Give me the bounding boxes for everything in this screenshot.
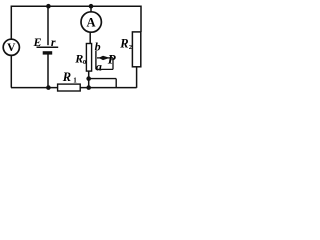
wire ammeter branch upper — [90, 6, 92, 13]
svg-text:a: a — [96, 60, 102, 74]
svg-text:R: R — [74, 52, 83, 66]
svg-text:R: R — [119, 37, 128, 51]
battery cell short thick plate — [43, 51, 53, 54]
wire slider lead down — [112, 58, 114, 70]
svg-text:2: 2 — [129, 44, 132, 51]
wire bottom horizontal left of R1 — [11, 87, 58, 89]
svg-text:R: R — [62, 70, 71, 84]
voltmeter V — [3, 39, 19, 55]
slider arrow P pointing left at element — [97, 56, 113, 60]
ammeter A — [81, 12, 101, 32]
resistor R1 body box — [58, 84, 81, 91]
wire link down to bottom wire — [115, 79, 117, 88]
rheostat R0 body box — [86, 44, 91, 72]
battery cell long plate — [37, 46, 59, 48]
wire left vertical lower (voltmeter to bottom wire) — [10, 55, 12, 87]
node junction dot on rheostat lead — [86, 76, 91, 81]
wire ammeter to rheostat box — [89, 32, 91, 44]
wire right vertical (top wire to R2) — [140, 6, 142, 32]
wire slider lead to terminal a — [96, 68, 113, 70]
wire battery branch upper — [47, 6, 49, 45]
svg-text:0: 0 — [83, 59, 86, 66]
wire left vertical upper (top wire to voltmeter) — [10, 6, 12, 40]
svg-text:V: V — [7, 42, 16, 54]
node junction dot on top wire at ammeter branch — [89, 4, 94, 9]
svg-text:A: A — [86, 16, 95, 30]
wire link from rheostat lead junction to right — [89, 78, 117, 80]
wire bottom horizontal right of R1 — [80, 87, 136, 89]
slide element wire a-b — [95, 51, 97, 70]
resistor R2 body box — [132, 32, 140, 67]
wire R2 lower lead to bottom wire — [136, 67, 138, 88]
wire rheostat box lower lead — [88, 71, 90, 88]
node junction dot on bottom wire at battery branch — [46, 85, 51, 90]
wire battery branch lower — [47, 54, 49, 87]
svg-text:P: P — [108, 52, 117, 67]
svg-text:1: 1 — [73, 77, 77, 85]
node junction dot on bottom wire at rheostat branch — [86, 85, 91, 90]
wire top horizontal — [11, 5, 141, 7]
node junction dot on top wire at battery branch — [46, 4, 51, 9]
